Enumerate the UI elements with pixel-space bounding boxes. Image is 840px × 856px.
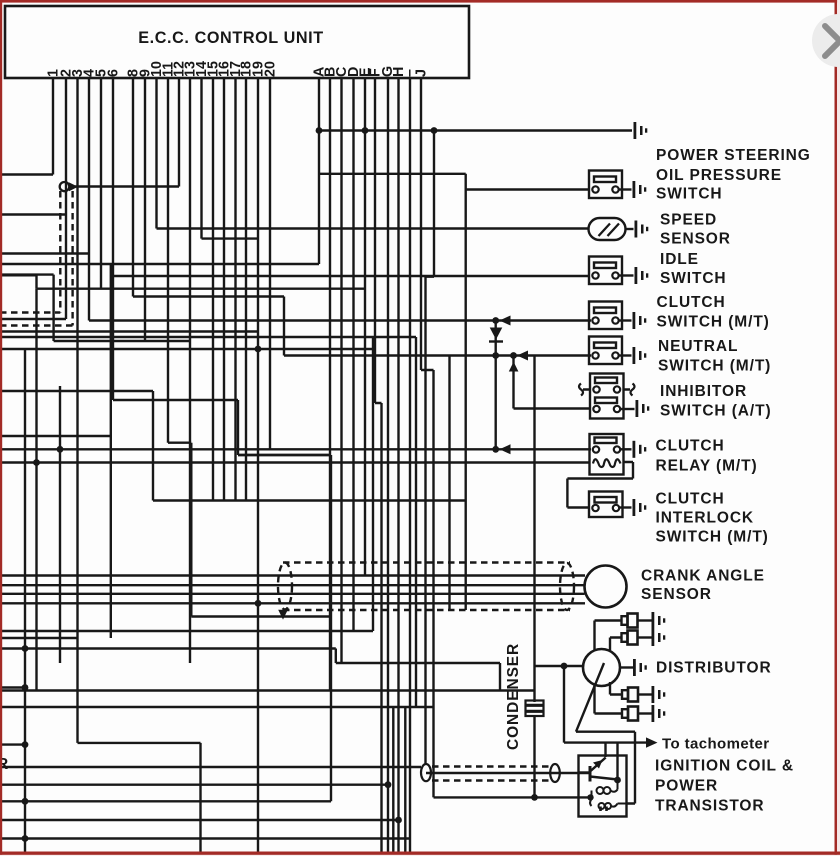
svg-text:INHIBITOR: INHIBITOR: [660, 383, 747, 400]
svg-text:To tachometer: To tachometer: [662, 736, 769, 753]
svg-text:IDLE: IDLE: [660, 251, 699, 268]
svg-text:SWITCH (M/T): SWITCH (M/T): [657, 314, 770, 331]
svg-text:CRANK ANGLE: CRANK ANGLE: [641, 568, 765, 585]
svg-text:CLUTCH: CLUTCH: [656, 491, 725, 508]
svg-text:SWITCH: SWITCH: [656, 186, 723, 203]
svg-text:RELAY (M/T): RELAY (M/T): [656, 458, 758, 475]
svg-text:CLUTCH: CLUTCH: [656, 438, 725, 455]
svg-text:6: 6: [106, 69, 122, 77]
svg-text:POWER: POWER: [655, 778, 718, 795]
svg-text:OIL PRESSURE: OIL PRESSURE: [656, 167, 782, 184]
svg-text:20: 20: [263, 61, 279, 77]
svg-text:SPEED: SPEED: [660, 212, 717, 229]
svg-text:SWITCH (M/T): SWITCH (M/T): [658, 358, 771, 375]
svg-text:CONDENSER: CONDENSER: [505, 643, 522, 750]
svg-text:SWITCH (M/T): SWITCH (M/T): [656, 529, 769, 546]
svg-text:J: J: [414, 69, 430, 77]
svg-text:IGNITION COIL &: IGNITION COIL &: [655, 758, 794, 775]
svg-text:SWITCH (A/T): SWITCH (A/T): [660, 403, 772, 420]
svg-text:TRANSISTOR: TRANSISTOR: [655, 798, 764, 815]
svg-text:INTERLOCK: INTERLOCK: [656, 510, 755, 527]
svg-text:SENSOR: SENSOR: [660, 231, 731, 248]
svg-text:SWITCH: SWITCH: [660, 270, 727, 287]
svg-text:DISTRIBUTOR: DISTRIBUTOR: [656, 660, 772, 677]
svg-text:POWER STEERING: POWER STEERING: [656, 147, 811, 164]
svg-text:CLUTCH: CLUTCH: [657, 294, 726, 311]
svg-text:E.C.C. CONTROL UNIT: E.C.C. CONTROL UNIT: [138, 29, 324, 47]
svg-text:NEUTRAL: NEUTRAL: [658, 338, 738, 355]
svg-text:SENSOR: SENSOR: [641, 586, 712, 603]
